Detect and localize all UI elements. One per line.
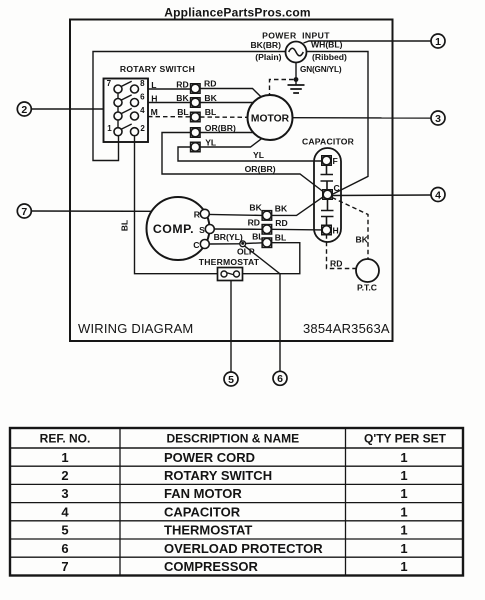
svg-text:BK(BR): BK(BR) [250,40,281,50]
compressor U7 [147,197,210,260]
pin c3 [114,112,122,120]
svg-text:1: 1 [107,124,112,133]
terminal TB-BL [262,238,272,248]
svg-text:4: 4 [61,504,69,519]
wire RD dashed to PTC [327,234,356,268]
svg-text:7: 7 [21,206,27,218]
wire BK(BR) live feed: left, down, to rotary pin 1 [93,52,286,161]
contact arm row3 [121,108,132,113]
svg-text:DESCRIPTION & NAME: DESCRIPTION & NAME [166,432,299,446]
wire BL terminal loop down [243,243,300,274]
cap plates C-H [321,199,334,225]
svg-text:5: 5 [61,523,68,538]
svg-text:BK: BK [249,203,262,213]
pin 7 [114,85,122,93]
svg-text:THERMOSTAT: THERMOSTAT [199,257,260,267]
terminal TB-BK [262,211,272,221]
svg-text:6: 6 [277,373,283,385]
svg-text:1: 1 [400,450,407,465]
svg-text:POWER CORD: POWER CORD [164,450,255,465]
svg-text:7: 7 [107,79,112,88]
pin 8 [131,85,139,93]
svg-text:1: 1 [400,486,407,501]
pin R [200,209,209,218]
wire WH(BL) neutral: right, down to capacitor C [307,52,369,195]
svg-text:1: 1 [400,559,407,574]
capacitor C1 body [314,148,341,242]
svg-text:5: 5 [228,374,234,386]
wire capacitor C to callout 4 [333,194,432,197]
pin 2 [131,128,139,136]
svg-text:2: 2 [61,468,68,483]
PTC relay [356,259,379,282]
svg-text:ROTARY SWITCH: ROTARY SWITCH [120,64,195,74]
callout line 2 [31,108,104,110]
wire S to RD terminal [214,228,262,230]
pin 1 [114,128,122,136]
terminal T5 [191,142,201,152]
svg-text:P.T.C: P.T.C [357,283,377,293]
terminal F [322,156,332,166]
wire BL dashed to motor [200,116,248,118]
wire ground drop [295,63,297,85]
wire C to OLP [209,243,240,245]
svg-text:8: 8 [140,79,145,88]
svg-text:4: 4 [140,106,145,115]
svg-text:RD: RD [330,259,342,269]
cap plates F-C [321,166,334,190]
callout line 5 [230,281,232,373]
terminal T4 [191,128,201,138]
svg-text:FAN MOTOR: FAN MOTOR [164,486,242,501]
wire common bus through left pins [117,89,119,132]
callout 2 [17,102,31,116]
pin C [200,240,209,249]
pin S [205,225,214,234]
pin c2 [114,99,122,107]
svg-text:6: 6 [140,93,145,102]
svg-text:REF. NO.: REF. NO. [40,432,91,446]
svg-text:ROTARY SWITCH: ROTARY SWITCH [164,468,272,483]
svg-text:BK: BK [275,203,288,213]
svg-text:YL: YL [253,150,264,160]
wire R to BK terminal [209,214,262,215]
wire OR(BR) to motor [200,132,253,134]
terminal T3 [191,112,201,122]
svg-text:BR(YL): BR(YL) [214,232,243,242]
terminal T2 [191,98,201,108]
wire YL loop to capacitor F [178,147,322,161]
svg-text:BL: BL [275,232,286,242]
border frame of wiring diagram [70,20,393,342]
fan motor M1 [248,95,293,140]
svg-text:THERMOSTAT: THERMOSTAT [164,523,252,538]
contact arm row2 [121,95,132,100]
callout 5 [224,372,238,386]
svg-text:F: F [333,156,338,166]
callout 7 [17,204,31,218]
wire H to terminal [148,102,190,104]
svg-text:2: 2 [21,104,27,116]
overload protector OLP [240,241,246,247]
svg-text:BL: BL [205,107,216,117]
callout 6 [273,371,287,385]
svg-text:(Ribbed): (Ribbed) [312,52,347,62]
svg-text:1: 1 [435,36,441,48]
svg-text:WIRING DIAGRAM: WIRING DIAGRAM [78,321,193,336]
callout 4 [431,188,445,202]
thermostat pin a [221,271,227,277]
AC source U-PWR [286,42,307,63]
svg-text:H: H [333,226,339,236]
svg-text:BL: BL [177,107,188,117]
contact arm pin1 [121,124,132,129]
callout line 7 [31,210,151,212]
svg-text:3: 3 [435,113,441,125]
thermostat contact arm [226,272,236,275]
svg-text:C: C [334,183,340,193]
parts table frame [10,428,463,576]
svg-text:2: 2 [140,124,145,133]
svg-text:CAPACITOR: CAPACITOR [302,137,355,147]
svg-text:OR(BR): OR(BR) [205,123,236,133]
wire RD to motor [200,89,261,98]
wire YL to motor [200,139,262,147]
svg-text:1: 1 [400,468,407,483]
wire BK dashed to PTC [332,198,368,259]
svg-text:1: 1 [61,450,68,465]
callout 3 [431,111,445,125]
svg-text:1: 1 [400,541,407,556]
rotary switch S1 body [104,79,149,143]
svg-text:(Plain): (Plain) [255,52,281,62]
svg-text:6: 6 [61,541,68,556]
pin 6 [131,99,139,107]
wire M dashed to terminal [148,116,190,118]
terminal T1 [191,84,201,94]
terminal H [322,225,332,235]
svg-text:3854AR3563A: 3854AR3563A [303,321,390,336]
svg-text:1: 1 [400,504,407,519]
terminal TB-RD [262,225,272,235]
svg-text:7: 7 [61,559,68,574]
wire RD terminal to capacitor H [272,228,322,231]
wire pin2 BL down to thermostat [135,136,218,274]
svg-text:MOTOR: MOTOR [251,113,290,124]
svg-text:RD: RD [204,79,216,89]
svg-text:RD: RD [176,80,188,90]
svg-text:S: S [199,225,205,235]
svg-text:RD: RD [275,218,287,228]
svg-text:CAPACITOR: CAPACITOR [164,504,241,519]
callout 1 [431,34,445,48]
junction dot at ground [294,77,299,82]
wire motor to callout 3 [293,117,432,119]
svg-text:YL: YL [205,138,216,148]
svg-text:4: 4 [435,189,441,201]
table row lines [10,466,463,557]
wire OLP to BL terminal [245,242,262,245]
svg-text:1: 1 [400,523,407,538]
thermostat S2 body [218,268,243,281]
table header divider [10,447,463,449]
wire BK terminal to capacitor C [272,197,323,216]
svg-text:GN(GN/YL): GN(GN/YL) [300,65,342,74]
svg-text:AppliancePartsPros.com: AppliancePartsPros.com [164,6,310,20]
svg-text:BK: BK [356,235,369,245]
ground symbol [288,85,305,93]
svg-text:Q'TY PER SET: Q'TY PER SET [364,432,447,446]
wire callout 1 line [304,41,432,43]
svg-text:C: C [193,240,199,250]
wire BK to motor [200,102,253,104]
callout line 6 [245,246,280,371]
svg-text:BK: BK [176,93,189,103]
svg-text:BL: BL [120,220,130,231]
wire OR(BR) loop to capacitor C [162,133,323,192]
svg-text:COMP.: COMP. [153,222,194,236]
thermostat pin b [234,271,240,277]
wire dashed earth to motor frame [270,80,294,95]
table column divider 1 [119,428,121,576]
terminal C [323,190,333,200]
pin 4 [131,112,139,120]
svg-text:M: M [151,107,158,117]
table column divider 2 [345,428,347,576]
svg-text:3: 3 [61,486,68,501]
svg-text:OVERLOAD PROTECTOR: OVERLOAD PROTECTOR [164,541,323,556]
wire L to terminal [148,88,190,90]
svg-text:COMPRESSOR: COMPRESSOR [164,559,259,574]
contact arm pin7 [121,81,132,86]
svg-text:RD: RD [248,218,260,228]
svg-text:BK: BK [204,93,217,103]
svg-text:OR(BR): OR(BR) [245,164,276,174]
